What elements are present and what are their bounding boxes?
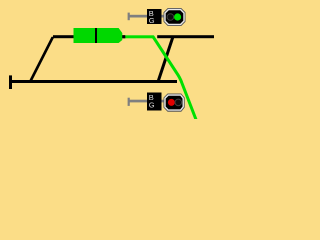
signal S1 label box BG	[147, 9, 162, 24]
train car 1	[74, 28, 96, 43]
train car 2 with nose	[97, 28, 122, 43]
signal S1 head	[164, 9, 185, 26]
signal S1 post	[129, 15, 167, 18]
wire left switch diagonal	[28, 37, 55, 83]
signal S1 post end bar	[128, 13, 130, 21]
wire main line (black)	[10, 80, 177, 83]
svg-text:G: G	[149, 16, 155, 25]
signal S2 head	[164, 94, 184, 111]
signal S2 left lamp (red)	[168, 99, 175, 106]
node green route on upper track	[125, 35, 154, 38]
signal S2 label box BG	[147, 93, 162, 111]
svg-text:G: G	[149, 100, 155, 109]
buffer stop (left end of main line)	[9, 75, 12, 89]
signal S1 right lamp (green)	[174, 13, 181, 20]
signal S2 post end bar	[128, 98, 130, 106]
track stub after nose	[122, 35, 125, 38]
signal S1 left lamp (off)	[167, 14, 174, 21]
wire upper track (black)	[53, 35, 125, 38]
wire green route diagonal to bottom right	[153, 36, 196, 119]
wire right switch diagonal	[158, 36, 173, 82]
signal S2 right lamp (off)	[175, 99, 182, 106]
signal S2 post	[129, 100, 167, 103]
train coupling gap	[95, 28, 97, 43]
